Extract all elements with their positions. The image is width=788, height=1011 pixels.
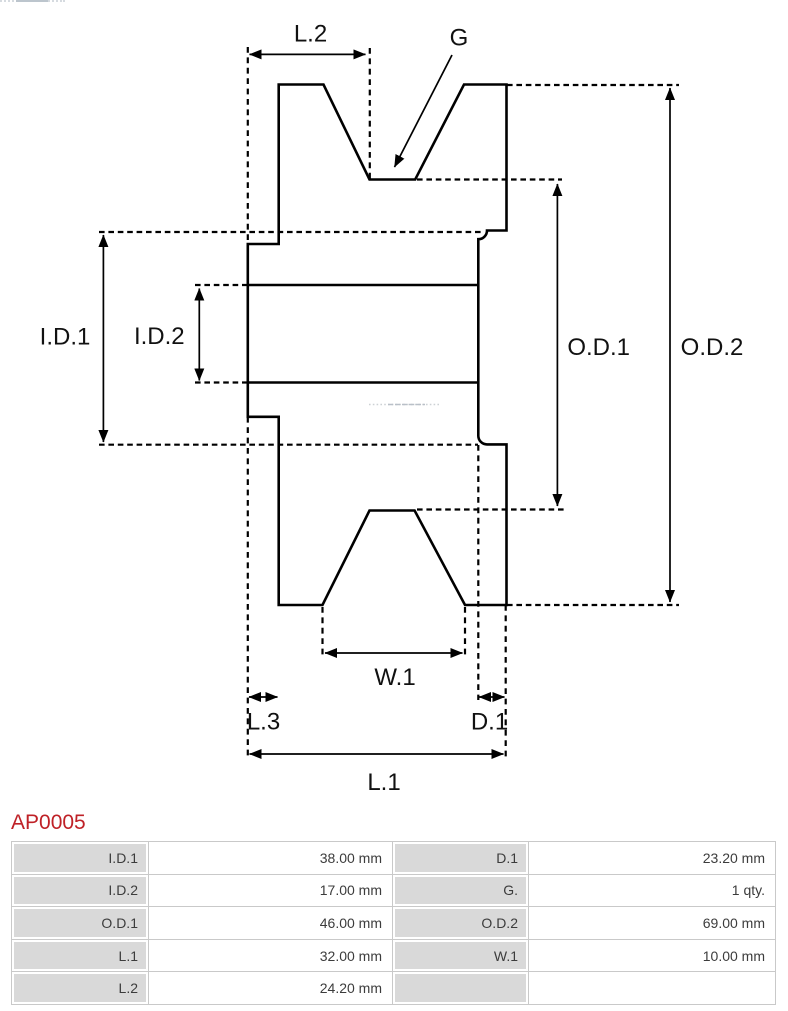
svg-text:L.1: L.1 [367, 769, 400, 796]
svg-text:W.1: W.1 [374, 664, 415, 691]
svg-text:O.D.1: O.D.1 [567, 334, 630, 361]
svg-text:L.3: L.3 [247, 709, 280, 736]
svg-text:L.2: L.2 [294, 21, 327, 48]
svg-text:I.D.2: I.D.2 [134, 323, 185, 350]
svg-text:O.D.2: O.D.2 [681, 334, 744, 361]
svg-text:G: G [450, 25, 469, 52]
svg-text:D.1: D.1 [471, 709, 508, 736]
svg-text:I.D.1: I.D.1 [40, 324, 91, 351]
